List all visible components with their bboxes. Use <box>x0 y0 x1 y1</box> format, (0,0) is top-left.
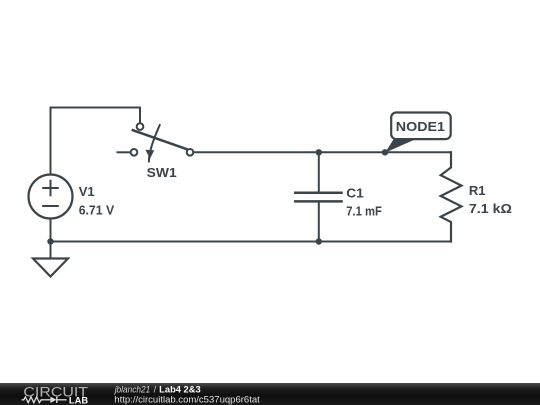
svg-text:R1: R1 <box>469 183 486 198</box>
wire: V1 top up and over to SW1 <box>51 108 141 176</box>
switch SW1 <box>118 123 194 161</box>
label C1 7.1 mF <box>346 186 382 219</box>
node NODE1 dot <box>382 149 388 155</box>
wire: bottom return <box>51 241 452 243</box>
svg-text:NODE1: NODE1 <box>396 119 445 134</box>
svg-text:7.1 kΩ: 7.1 kΩ <box>469 201 512 216</box>
svg-text:6.71 V: 6.71 V <box>79 202 115 217</box>
svg-text:jblanch21: jblanch21 <box>114 384 150 394</box>
footer bar <box>0 383 540 405</box>
svg-text:V1: V1 <box>79 184 95 199</box>
flag NODE1 <box>385 113 451 153</box>
label R1 7.1 kOhm <box>469 183 512 216</box>
voltage source V1 <box>29 175 73 219</box>
junction node at C1 bottom <box>316 238 322 244</box>
junction node at ground <box>47 238 53 244</box>
svg-text:SW1: SW1 <box>147 165 177 180</box>
svg-text:http://circuitlab.com/c537uqp6: http://circuitlab.com/c537uqp6r6tat <box>114 394 260 404</box>
svg-text:Lab4 2&3: Lab4 2&3 <box>159 384 201 394</box>
wire: V1 bottom to junction <box>50 219 52 242</box>
wire: main horizontal from SW1 to R1 corner <box>193 151 451 153</box>
resistor R1 <box>441 152 462 241</box>
svg-text:LAB: LAB <box>69 396 88 405</box>
capacitor C1 <box>295 152 341 241</box>
CircuitLab logo: resistor zigzag glyph <box>22 397 45 403</box>
junction node at C1 top <box>316 149 322 155</box>
svg-text:7.1 mF: 7.1 mF <box>346 204 382 219</box>
ground <box>33 242 68 277</box>
CircuitLab logo: diode glyph <box>44 397 66 403</box>
svg-text:C1: C1 <box>346 186 364 201</box>
label SW1 <box>147 165 177 180</box>
label V1 6.71 V <box>79 184 115 217</box>
